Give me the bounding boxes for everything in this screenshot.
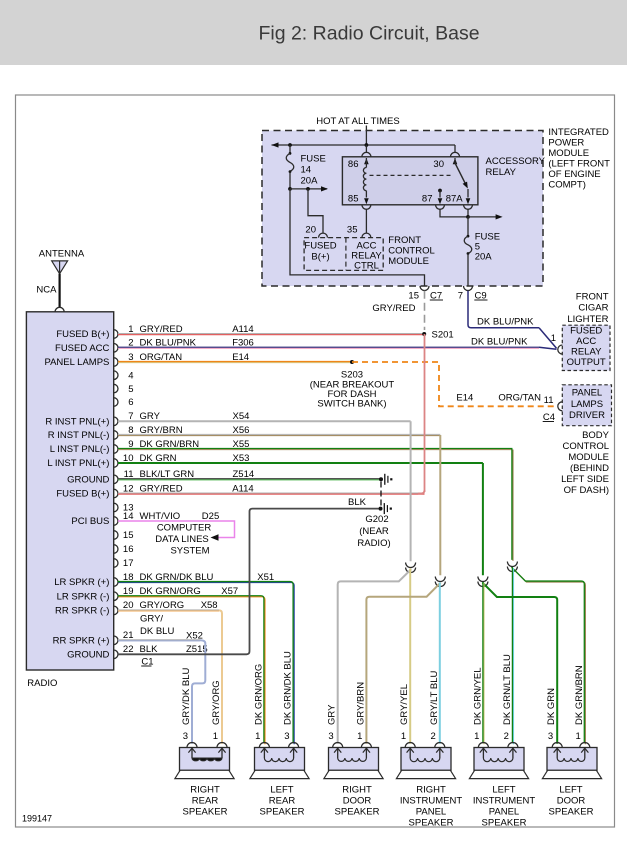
wire pin12 GRY/RED — [118, 492, 425, 494]
radio pin 1 connector — [114, 330, 118, 339]
svg-text:6: 6 — [128, 397, 133, 408]
wire pin19 DK GRN/ORG — [119, 597, 265, 745]
svg-text:RELAY: RELAY — [571, 347, 602, 358]
speaker right rear terminals — [191, 748, 193, 759]
header band — [0, 0, 627, 65]
wire 87A down — [467, 209, 469, 217]
speaker left door box — [547, 748, 597, 771]
ipm exit C7 — [420, 286, 429, 291]
speaker right door horn — [324, 770, 383, 778]
svg-text:17: 17 — [123, 558, 134, 569]
wire pin10 DK GRN — [118, 462, 483, 464]
svg-text:85: 85 — [348, 194, 359, 205]
wire GRY vertical — [410, 421, 412, 561]
svg-text:1: 1 — [474, 731, 479, 742]
svg-text:PANEL: PANEL — [416, 807, 446, 818]
antenna entry connector — [55, 307, 64, 312]
accessory relay box — [342, 157, 478, 205]
svg-text:2: 2 — [504, 731, 509, 742]
svg-text:GRY/LT BLU: GRY/LT BLU — [429, 670, 440, 725]
radio pin 19 connector — [114, 592, 118, 601]
inline connector DK GRN — [478, 577, 488, 582]
svg-text:GRY/YEL: GRY/YEL — [399, 684, 410, 725]
svg-text:RIGHT: RIGHT — [342, 785, 372, 796]
svg-text:2: 2 — [431, 731, 436, 742]
wire GRY/BRN vertical — [439, 435, 441, 575]
inline connector DK GRN/BRN — [507, 562, 517, 567]
radio pin 6 connector — [114, 398, 118, 407]
speaker right inst panel terminals — [409, 748, 411, 759]
svg-text:DK GRN/BRN: DK GRN/BRN — [574, 665, 585, 725]
svg-text:FUSED: FUSED — [570, 326, 602, 337]
wire DK GRN/YEL to left inst panel speaker — [483, 583, 485, 744]
wire pin14 WHT/VIO pci bus — [118, 521, 235, 538]
speaker left door horn — [542, 770, 601, 778]
svg-text:15: 15 — [123, 530, 134, 541]
speaker left rear connectors — [259, 743, 269, 748]
svg-text:(BEHIND: (BEHIND — [570, 463, 609, 474]
svg-text:CTRL: CTRL — [354, 261, 379, 272]
relay coil — [363, 168, 366, 191]
svg-text:OF DASH): OF DASH) — [564, 485, 609, 496]
node 87A junction — [466, 215, 470, 219]
svg-text:SPEAKER: SPEAKER — [260, 807, 305, 818]
svg-text:ACC: ACC — [576, 336, 596, 347]
svg-text:DK BLU/PNK: DK BLU/PNK — [477, 317, 534, 328]
svg-text:FUSED B(+): FUSED B(+) — [56, 489, 109, 500]
speaker left door connectors — [552, 743, 562, 748]
svg-text:D25: D25 — [202, 511, 219, 522]
svg-text:86: 86 — [348, 159, 359, 170]
svg-text:GROUND: GROUND — [67, 475, 109, 486]
svg-text:3: 3 — [284, 731, 289, 742]
svg-text:1: 1 — [255, 731, 260, 742]
svg-text:30: 30 — [433, 159, 444, 170]
radio pin 21 connector — [114, 636, 118, 645]
svg-text:FRONT: FRONT — [388, 235, 421, 246]
front control module box — [304, 238, 383, 271]
speaker right inst panel coil — [410, 758, 440, 762]
panel lamps pin 11 — [558, 402, 563, 411]
wire GRY/RED dashed below C7 — [424, 291, 426, 330]
svg-text:REAR: REAR — [269, 796, 296, 807]
radio pin 5 connector — [114, 384, 118, 393]
svg-text:1: 1 — [551, 333, 556, 344]
wire 87 to 87A junction — [440, 209, 468, 217]
wire to C7 — [290, 189, 425, 286]
svg-text:GRY/DK BLU: GRY/DK BLU — [181, 667, 192, 725]
svg-text:CIGAR: CIGAR — [578, 303, 608, 314]
svg-text:RIGHT: RIGHT — [190, 785, 220, 796]
relay pin 87 — [438, 189, 442, 193]
svg-text:199147: 199147 — [22, 814, 52, 824]
node S201 — [422, 332, 426, 336]
svg-text:RR SPKR (+): RR SPKR (+) — [53, 636, 110, 647]
radio pin 13 connector — [114, 503, 118, 512]
node fuse14 out — [288, 187, 292, 191]
svg-text:ACCESSORY: ACCESSORY — [486, 156, 546, 167]
wire pin8 GRY/BRN — [118, 434, 440, 436]
node branch20 — [306, 187, 310, 191]
wire GRY/LT BLU to right inst panel speaker — [439, 583, 441, 744]
ground link — [380, 482, 382, 507]
speaker right door coil — [338, 758, 367, 761]
inline connector GRY/BRN — [435, 577, 445, 582]
svg-text:GRY/ORG: GRY/ORG — [211, 680, 222, 725]
svg-text:14: 14 — [123, 511, 134, 522]
wire pin1 GRY/RED — [118, 333, 424, 335]
svg-text:SPEAKER: SPEAKER — [409, 818, 454, 829]
wire hot feed — [365, 126, 367, 146]
relay pin 85 — [365, 191, 367, 198]
svg-text:4: 4 — [128, 370, 133, 381]
svg-text:DK GRN/YEL: DK GRN/YEL — [472, 667, 483, 725]
fused acc pin 1 — [558, 345, 563, 354]
speaker right inst panel box — [401, 748, 451, 771]
panel lamps driver box — [562, 385, 611, 426]
radio pin 15 connector — [114, 531, 118, 540]
svg-text:GRY/RED: GRY/RED — [372, 303, 415, 314]
svg-text:DK GRN/ORG: DK GRN/ORG — [253, 664, 264, 725]
radio pin 11 connector — [114, 475, 118, 484]
svg-text:DK BLU/PNK: DK BLU/PNK — [471, 337, 528, 348]
speaker right rear coil — [192, 758, 222, 761]
svg-text:20: 20 — [305, 225, 316, 236]
svg-text:DOOR: DOOR — [557, 796, 586, 807]
svg-text:NCA: NCA — [36, 285, 57, 296]
svg-text:1: 1 — [576, 731, 581, 742]
svg-text:INSTRUMENT: INSTRUMENT — [400, 796, 462, 807]
relay switch blade — [455, 163, 466, 185]
svg-text:20A: 20A — [475, 252, 493, 263]
wire GRY to right door speaker — [338, 569, 411, 744]
svg-text:DK GRN/LT BLU: DK GRN/LT BLU — [502, 654, 513, 725]
wire pin9 DK GRN/BRN — [118, 448, 512, 450]
svg-text:3: 3 — [328, 731, 333, 742]
svg-text:S201: S201 — [432, 330, 454, 341]
svg-text:INSTRUMENT: INSTRUMENT — [473, 796, 535, 807]
svg-text:ANTENNA: ANTENNA — [39, 249, 85, 260]
fcm pin 20 — [319, 233, 328, 238]
svg-text:SWITCH BANK): SWITCH BANK) — [317, 399, 386, 410]
svg-text:RIGHT: RIGHT — [416, 785, 446, 796]
speaker left inst panel coil — [483, 758, 513, 762]
speaker right door connectors — [333, 743, 343, 748]
fuse F5 — [467, 217, 469, 235]
svg-text:15: 15 — [408, 291, 419, 302]
svg-text:LIGHTER: LIGHTER — [567, 314, 608, 325]
svg-text:SPEAKER: SPEAKER — [335, 807, 380, 818]
svg-text:R INST PNL(+): R INST PNL(+) — [45, 417, 109, 428]
wire pin7 GRY — [118, 420, 411, 422]
svg-text:FRONT: FRONT — [576, 292, 609, 303]
radio pin 8 connector — [114, 431, 118, 440]
svg-text:RADIO): RADIO) — [357, 538, 390, 549]
node bus-fuse14 — [288, 143, 292, 147]
svg-text:LR SPKR (-): LR SPKR (-) — [57, 591, 110, 602]
svg-text:1: 1 — [401, 731, 406, 742]
svg-text:G202: G202 — [365, 514, 388, 525]
svg-text:POWER: POWER — [548, 138, 584, 149]
node bus-hot — [365, 143, 369, 147]
radio pin 10 connector — [114, 459, 118, 468]
wire pin21 GRY/DK BLU — [118, 639, 200, 641]
speaker left inst panel terminals — [482, 748, 484, 759]
radio pin 4 connector — [114, 371, 118, 380]
svg-text:SYSTEM: SYSTEM — [170, 546, 209, 557]
svg-text:DK GRN: DK GRN — [546, 688, 557, 725]
svg-text:FUSED: FUSED — [304, 241, 336, 252]
radio pin 14 connector — [114, 517, 118, 526]
speaker left inst panel box — [474, 748, 524, 771]
wire pin20 GRY/ORG — [118, 609, 219, 611]
svg-text:SPEAKER: SPEAKER — [549, 807, 594, 818]
svg-text:FUSED B(+): FUSED B(+) — [56, 329, 109, 340]
speaker right rear box — [180, 748, 230, 771]
bus arrow left — [272, 142, 279, 147]
svg-text:SPEAKER: SPEAKER — [183, 807, 228, 818]
svg-text:87: 87 — [422, 194, 433, 205]
radio pin 7 connector — [114, 417, 118, 426]
wire pin2 DK BLU/PNK — [118, 346, 539, 348]
speaker right inst panel horn — [396, 770, 455, 778]
radio pin 18 connector — [114, 578, 118, 587]
svg-text:DK GRN/DK BLU: DK GRN/DK BLU — [283, 651, 294, 725]
speaker left inst panel horn — [469, 770, 528, 778]
svg-text:INTEGRATED: INTEGRATED — [548, 127, 609, 138]
svg-text:LAMPS: LAMPS — [571, 399, 603, 410]
svg-text:R INST PNL(-): R INST PNL(-) — [48, 430, 110, 441]
svg-text:1: 1 — [357, 731, 362, 742]
svg-text:LEFT SIDE: LEFT SIDE — [561, 474, 609, 485]
svg-text:MODULE: MODULE — [548, 148, 589, 159]
svg-text:LEFT: LEFT — [492, 785, 515, 796]
svg-text:20A: 20A — [301, 176, 319, 187]
antenna symbol — [52, 261, 68, 274]
fused acc relay output box — [562, 325, 610, 370]
wire branch to pin20 — [308, 189, 323, 233]
wire DK BLU/PNK from C9 — [468, 291, 539, 328]
wire bus — [272, 144, 456, 146]
svg-text:WHT/VIO: WHT/VIO — [140, 511, 181, 522]
relay pin 30 — [451, 152, 460, 157]
svg-text:14: 14 — [301, 165, 312, 176]
svg-text:L INST PNL(+): L INST PNL(+) — [47, 458, 109, 469]
wire pin3 ORG/TAN — [118, 361, 352, 363]
integrated power module box — [262, 131, 543, 287]
svg-text:BODY: BODY — [582, 430, 610, 441]
relay pin 86 — [362, 152, 371, 157]
speaker right door box — [329, 748, 379, 771]
svg-text:87A: 87A — [446, 194, 464, 205]
speaker left door coil — [557, 758, 585, 761]
wire acc feed arrow — [468, 216, 497, 218]
fcm divider — [345, 238, 347, 271]
svg-text:MODULE: MODULE — [388, 256, 429, 267]
svg-text:OF ENGINE: OF ENGINE — [548, 169, 600, 180]
svg-text:RADIO: RADIO — [27, 678, 57, 689]
speaker left rear box — [255, 748, 305, 771]
wire pin22 BLK to G202 — [118, 509, 379, 655]
inline connector GRY — [406, 563, 416, 568]
speaker right rear horn — [175, 770, 234, 778]
svg-text:PCI BUS: PCI BUS — [71, 516, 109, 527]
speaker left rear coil — [264, 758, 293, 762]
svg-text:PANEL: PANEL — [572, 388, 602, 399]
wire DK GRN/BRN to left door speaker — [513, 568, 585, 744]
speaker left rear terminals — [263, 748, 265, 759]
speaker left rear horn — [250, 770, 309, 778]
svg-text:COMPUTER: COMPUTER — [157, 523, 212, 534]
svg-text:GRY/: GRY/ — [140, 614, 163, 625]
ipm exit C9 — [464, 286, 473, 291]
svg-text:DOOR: DOOR — [343, 796, 372, 807]
svg-text:L INST PNL(-): L INST PNL(-) — [50, 444, 110, 455]
wire DK GRN/BRN vertical — [512, 450, 514, 561]
svg-text:LR SPKR (+): LR SPKR (+) — [54, 577, 109, 588]
svg-text:LEFT: LEFT — [559, 785, 582, 796]
radio pin 9 connector — [114, 445, 118, 454]
svg-text:LEFT: LEFT — [270, 785, 293, 796]
svg-text:ORG/TAN: ORG/TAN — [498, 392, 541, 403]
svg-text:5: 5 — [128, 384, 133, 395]
radio pin 12 connector — [114, 489, 118, 498]
node S203 — [350, 360, 354, 364]
svg-text:11: 11 — [544, 395, 554, 406]
radio pin 17 connector — [114, 559, 118, 568]
radio pin 16 connector — [114, 545, 118, 554]
wire DK GRN to left door speaker — [483, 583, 557, 744]
wire pin18 DK GRN/DK BLU — [119, 583, 295, 745]
fcm pin 35 — [365, 209, 367, 233]
wire ORG/TAN dashed to panel lamps driver — [352, 362, 557, 406]
svg-text:FUSED ACC: FUSED ACC — [55, 343, 110, 354]
relay pin 87A — [467, 189, 469, 198]
svg-text:GROUND: GROUND — [67, 650, 109, 661]
wire DK GRN/LT BLU to left inst panel speaker — [512, 568, 514, 744]
svg-text:COMPT): COMPT) — [548, 180, 585, 191]
svg-text:PANEL: PANEL — [489, 807, 519, 818]
radio pin 20 connector — [114, 606, 118, 615]
wire DK GRN vertical — [482, 463, 484, 575]
svg-text:Fig 2: Radio Circuit, Base: Fig 2: Radio Circuit, Base — [258, 23, 479, 45]
svg-text:E14: E14 — [456, 392, 473, 403]
antenna mast — [58, 274, 60, 308]
svg-text:(NEAR: (NEAR — [359, 526, 389, 537]
svg-text:CONTROL: CONTROL — [388, 246, 434, 257]
wire GRY/BRN to right door speaker — [366, 583, 440, 744]
svg-text:OUTPUT: OUTPUT — [567, 357, 606, 368]
svg-text:DATA LINES: DATA LINES — [155, 534, 209, 545]
svg-text:1: 1 — [213, 731, 218, 742]
svg-text:DK BLU: DK BLU — [140, 626, 174, 637]
ground G202 — [379, 507, 383, 511]
svg-text:DRIVER: DRIVER — [569, 410, 605, 421]
svg-text:GRY/BRN: GRY/BRN — [355, 682, 366, 725]
relay coil-switch dashed link — [370, 174, 453, 176]
ground Z514 — [379, 477, 383, 481]
wire b+ feed arrow — [290, 188, 327, 190]
svg-text:MODULE: MODULE — [568, 452, 609, 463]
svg-text:REAR: REAR — [192, 796, 219, 807]
speaker right door terminals — [337, 748, 339, 759]
speaker right rear connectors — [187, 743, 197, 748]
svg-text:FUSE: FUSE — [301, 154, 326, 165]
speaker left inst panel connectors — [478, 743, 488, 748]
svg-text:(LEFT FRONT: (LEFT FRONT — [548, 159, 610, 170]
svg-text:CONTROL: CONTROL — [563, 441, 609, 452]
svg-text:16: 16 — [123, 544, 134, 555]
svg-text:35: 35 — [347, 225, 358, 236]
svg-text:PANEL LAMPS: PANEL LAMPS — [44, 357, 109, 368]
radio box — [26, 312, 113, 670]
wire pin11 BLK/LT GRN — [118, 478, 381, 480]
radio pin 22 connector — [114, 650, 118, 659]
svg-text:3: 3 — [548, 731, 553, 742]
wire GRY/YEL to right inst panel speaker — [409, 569, 411, 744]
svg-text:B(+): B(+) — [311, 252, 329, 263]
svg-text:HOT AT ALL TIMES: HOT AT ALL TIMES — [316, 116, 399, 127]
fuse F14 — [289, 145, 291, 153]
radio pin 2 connector — [114, 344, 118, 353]
svg-text:BLK: BLK — [348, 497, 367, 508]
svg-text:RELAY: RELAY — [486, 167, 517, 178]
svg-text:SPEAKER: SPEAKER — [482, 818, 527, 829]
speaker right inst panel connectors — [405, 743, 415, 748]
radio pin 3 connector — [114, 358, 118, 367]
svg-text:3: 3 — [183, 731, 188, 742]
wire GRY/RED vertical to pin12 — [424, 334, 426, 492]
speaker left door terminals — [556, 748, 558, 759]
svg-text:7: 7 — [458, 291, 463, 302]
svg-text:GRY: GRY — [327, 704, 338, 725]
svg-text:RR SPKR (-): RR SPKR (-) — [55, 606, 109, 617]
